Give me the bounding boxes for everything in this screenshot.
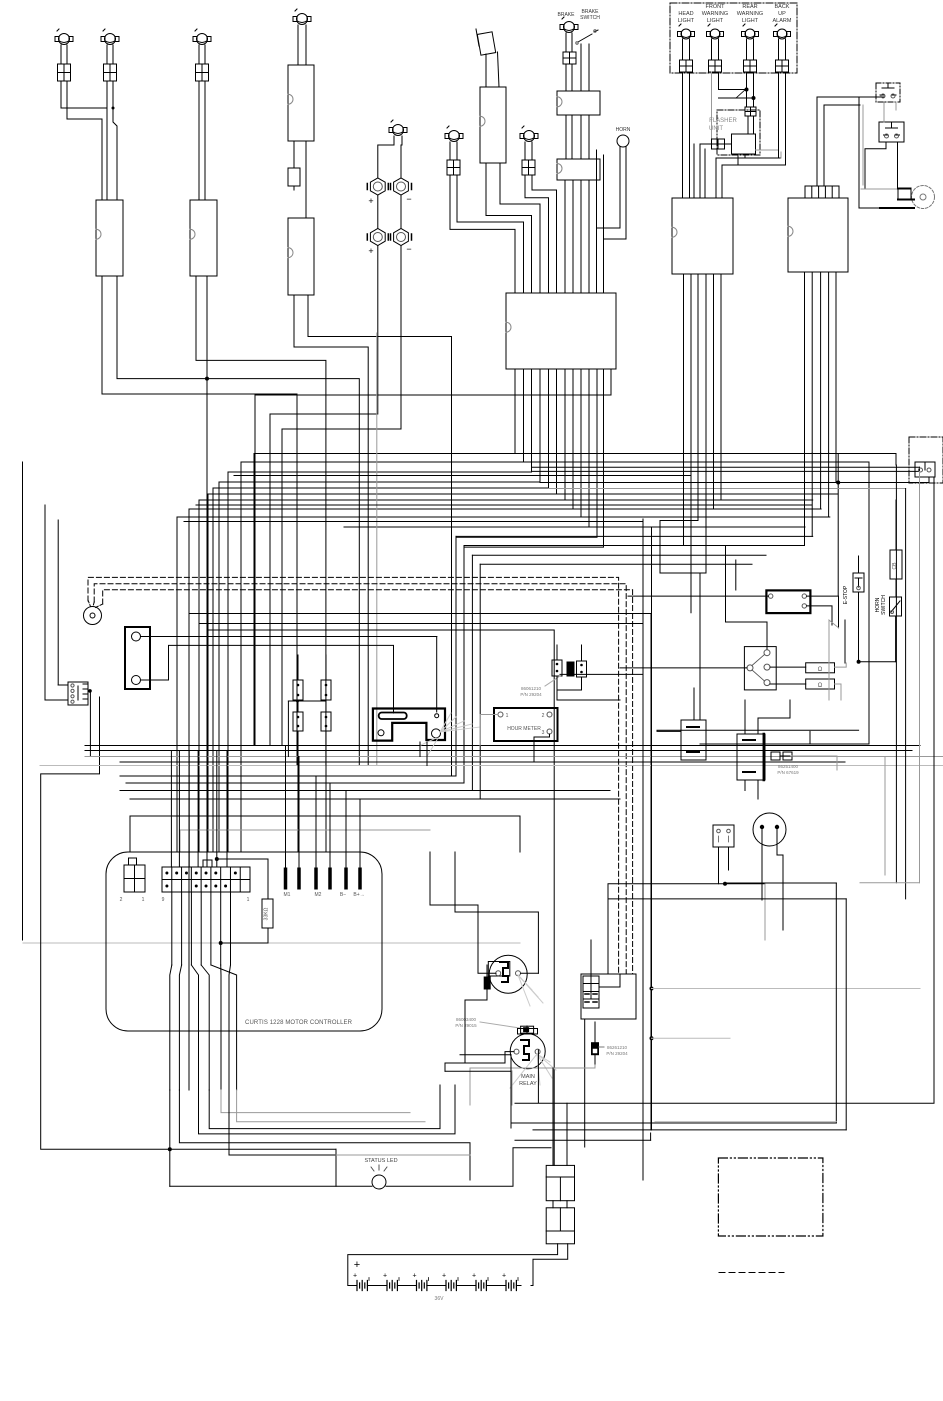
wires CI stubs	[297, 700, 299, 712]
svg-text:E-STOP: E-STOP	[843, 585, 849, 604]
fuse lamp x715	[709, 60, 722, 72]
wire horizontal y790	[120, 790, 610, 792]
svg-text:SWITCH: SWITCH	[580, 15, 600, 21]
svg-text:+: +	[383, 1273, 387, 1280]
wire lamp leads x750	[746, 39, 748, 60]
relay module box	[737, 734, 765, 780]
lamp L1 (left headlight)	[59, 34, 70, 45]
lamp rear warning	[745, 29, 755, 39]
wire 33K loop	[217, 859, 268, 899]
terminal M2 bars	[315, 868, 318, 889]
terminal nut TN4 -	[394, 229, 409, 246]
fuse F1	[58, 64, 71, 81]
fuse F7	[522, 160, 535, 175]
accelerator module outline	[373, 709, 445, 741]
wire far right x934	[515, 477, 934, 1103]
wire bus y488 right	[549, 488, 906, 490]
svg-text:+: +	[368, 196, 373, 206]
wire horizontal y776	[120, 775, 456, 777]
junction box B	[788, 198, 848, 272]
wire dashed speedo 3	[103, 590, 633, 974]
svg-text:1: 1	[142, 897, 145, 903]
wire right column x652	[651, 527, 653, 1130]
svg-text:+: +	[502, 1273, 506, 1280]
wire web upper controller	[130, 815, 520, 817]
fuse lamp x782	[776, 60, 789, 72]
connector stack CS1	[546, 1165, 574, 1200]
svg-text:B−: B−	[340, 892, 346, 898]
wire CN3 mid	[293, 141, 295, 168]
wire estop junction to horn switch	[859, 661, 896, 663]
accelerator pill slot	[379, 713, 407, 720]
svg-text:HEAD: HEAD	[678, 11, 693, 17]
wires box A bottom (6) down to bus	[683, 274, 685, 455]
wire bus y462 right	[524, 461, 870, 463]
relay K1 circle	[489, 955, 527, 993]
svg-text:LIGHT: LIGHT	[742, 18, 759, 24]
wire K1 feeds	[478, 940, 496, 973]
wire right mid x885	[884, 757, 886, 876]
junction dots rear	[745, 88, 749, 92]
wire CN7 down	[89, 691, 91, 757]
wire y520 stub	[660, 520, 698, 522]
wire flasher connections	[747, 116, 749, 134]
wire x660 link	[659, 521, 661, 574]
dashed stub	[719, 1272, 784, 1274]
inline connector pair CI1	[293, 680, 303, 700]
battery string	[357, 1281, 367, 1291]
wire CB up/down	[895, 500, 897, 550]
relay K1 contacts	[500, 962, 508, 982]
wire charger bottom	[141, 645, 394, 713]
resistor 33K	[262, 899, 273, 928]
connector CN1	[96, 200, 123, 276]
gray fan K1	[518, 975, 532, 990]
wire relay module bottom stubs	[744, 780, 746, 791]
wire CB2 connections	[590, 940, 592, 976]
wire horn down to ignition box	[597, 147, 621, 293]
svg-text:B+→: B+→	[353, 892, 364, 898]
wire bus y750	[85, 750, 912, 752]
svg-text:STATUS LED: STATUS LED	[364, 1158, 397, 1164]
svg-text:RELAY: RELAY	[519, 1081, 537, 1087]
connector stack CS2	[546, 1208, 574, 1244]
connector block CB2 grid	[583, 976, 599, 999]
svg-text:ALARM: ALARM	[773, 18, 792, 24]
wire TN3 down-left	[270, 246, 378, 415]
wire bus y555 right	[472, 554, 766, 556]
wire bus y527 right	[589, 526, 805, 528]
wire relay module right	[765, 731, 810, 744]
inline connector CN5	[557, 91, 600, 115]
wire x451 long vertical	[451, 337, 453, 777]
wire bottom long bus	[336, 1154, 470, 1156]
wire bus y745	[85, 745, 920, 747]
gray fan K2	[537, 1054, 550, 1062]
wire bottom lines from pins	[169, 1090, 171, 1186]
svg-text:+: +	[472, 1273, 476, 1280]
wire CN2 down	[196, 276, 326, 766]
fuse flasher top	[745, 107, 756, 116]
svg-text:P/N 29204: P/N 29204	[606, 1051, 628, 1056]
wire rear warn pair down	[746, 72, 748, 107]
wire rear to left stubs	[719, 89, 747, 91]
wire H6 y630	[208, 630, 554, 1165]
connector CN7 small 4-pin	[68, 682, 88, 705]
key switch box	[766, 590, 810, 613]
wire L3 down to connector CN2	[198, 81, 200, 200]
svg-text:−: −	[406, 244, 411, 254]
svg-text:+: +	[354, 1259, 360, 1271]
wire H y395 left	[254, 395, 256, 745]
fuse F2	[104, 64, 117, 81]
wire right tall x896	[895, 465, 897, 883]
wire L6 to ignition box	[450, 175, 515, 293]
lights group dash-dot box	[670, 3, 797, 73]
left frame gray bus y941	[23, 942, 520, 944]
wire bus y453.5 right	[515, 453, 896, 455]
wire bus y536 right	[456, 535, 813, 537]
fuse F8	[563, 52, 576, 64]
speed sensor circle	[84, 607, 102, 625]
wire ladder extra c	[184, 521, 643, 523]
wire relay module top	[744, 700, 746, 734]
wire limiter down	[761, 829, 763, 900]
wire CB1 up	[693, 688, 695, 720]
connector CN4	[480, 87, 506, 163]
wire 86261210 stub	[594, 1022, 596, 1042]
wire mid y674	[560, 673, 643, 675]
svg-text:M2: M2	[315, 892, 322, 898]
svg-text:36V: 36V	[435, 1296, 445, 1302]
connector CJ3	[577, 661, 587, 677]
connector CN3 upper	[288, 65, 314, 141]
status LED	[372, 1175, 386, 1189]
wire L2 down to connector CN1	[106, 81, 108, 200]
wires box A top	[693, 144, 695, 198]
wire pedal down	[718, 847, 720, 884]
wire lamp leads x686	[682, 39, 684, 60]
svg-text:HORN: HORN	[616, 127, 631, 133]
wire bus y564 right	[480, 563, 752, 565]
wire key switch top feed	[735, 560, 737, 590]
svg-text:−: −	[406, 194, 411, 204]
accelerator circles	[435, 714, 439, 718]
svg-text:86003400: 86003400	[456, 1017, 477, 1022]
wire bus y762	[120, 761, 845, 763]
wire CN4 to ignition box	[486, 163, 532, 293]
wire dashed speedo 1	[88, 577, 619, 974]
wire SE nested L1	[726, 882, 837, 884]
connector CJ1	[552, 660, 562, 676]
horn speaker	[912, 186, 935, 209]
lamp brake pressure switch	[564, 22, 575, 33]
wire key switch right	[807, 596, 839, 628]
wire left branch	[57, 520, 59, 685]
wire accel below verticals	[419, 742, 421, 757]
circuit breaker CB	[890, 550, 902, 579]
lamp front warning	[710, 29, 720, 39]
svg-text:P/N 67619: P/N 67619	[777, 770, 799, 775]
receptacle inner	[915, 462, 935, 477]
controller pin strip	[162, 867, 250, 892]
svg-text:P/N 29015: P/N 29015	[455, 1023, 477, 1028]
lamp L7	[524, 131, 535, 142]
svg-text:REAR: REAR	[742, 4, 757, 10]
wire L2 leads	[106, 45, 108, 64]
terminal nut TN1 +	[370, 178, 385, 195]
wire L4 leads	[297, 25, 299, 65]
wire horn switch bottom	[895, 616, 897, 662]
connector CN2	[190, 200, 217, 276]
wire H y429 left vert	[281, 429, 283, 745]
wire turn signal to resistors	[770, 666, 806, 668]
connector CN3 lower	[288, 218, 314, 295]
wire turn signal left	[620, 667, 747, 669]
svg-text:Ω: Ω	[818, 667, 823, 673]
svg-text:33KΩ: 33KΩ	[264, 907, 270, 920]
terminal B- B+ bars	[345, 868, 348, 889]
svg-text:+: +	[412, 1273, 416, 1280]
wire turn signal top	[726, 546, 768, 650]
wire L1 leads	[60, 45, 62, 64]
wire bus y756	[85, 756, 943, 758]
connector block CB1	[681, 720, 706, 760]
charger receptacle	[125, 627, 150, 689]
wire front warn left down to flasher fuse region	[711, 72, 713, 139]
switch S1 dash-dot (interlock)	[876, 83, 900, 102]
inline connector pair CI2	[321, 680, 331, 700]
wire extra pair to ignition box	[596, 150, 598, 228]
svg-text:WARNING: WARNING	[702, 11, 728, 17]
wire horizontal y799	[130, 798, 620, 800]
wire relay bottom bus	[460, 1054, 511, 1056]
leader 86061210	[545, 676, 560, 686]
wire bus y482 right	[540, 482, 929, 484]
svg-text:9: 9	[162, 897, 165, 903]
fuse flasher left	[712, 139, 725, 149]
wire L3 leads	[198, 45, 200, 64]
wire e-stop top stub	[858, 556, 860, 573]
accelerator gray fan	[440, 713, 451, 732]
wire charger top to right	[141, 636, 188, 638]
Curtis 1228 controller outline	[106, 852, 382, 1031]
wire CB1 sides	[657, 730, 859, 731]
svg-text:FLASHER: FLASHER	[709, 118, 737, 124]
left frame wire outer	[22, 462, 24, 940]
wire backup pair to box L	[778, 150, 780, 158]
svg-text:CURTIS 1228 MOTOR CONTROLLE: CURTIS 1228 MOTOR CONTROLLER	[245, 1020, 353, 1026]
pedal connector	[713, 825, 734, 847]
wire speaker feeds	[859, 97, 911, 208]
svg-text:WARNING: WARNING	[737, 11, 763, 17]
wire L6 leads	[449, 142, 451, 160]
receptacle dash-dot box	[909, 437, 943, 483]
lamp L4	[297, 14, 308, 25]
wire CI link y701	[288, 700, 326, 702]
main relay K2 circle	[510, 1034, 545, 1069]
wire bus y471.4 right	[532, 470, 920, 472]
alarm back up	[777, 29, 787, 39]
fuse 86251400	[771, 752, 780, 760]
svg-text:2: 2	[542, 713, 545, 719]
wire receptacle stubs	[919, 467, 921, 477]
wire pedal bus	[608, 884, 725, 920]
left frame wire 2	[44, 505, 46, 700]
svg-text:86261210: 86261210	[607, 1045, 628, 1050]
flasher unit body	[732, 134, 756, 154]
fuse lamp x686	[680, 60, 693, 72]
ignition key-switch box	[506, 293, 616, 369]
hour meter box	[494, 708, 558, 741]
wire hour meter 1	[480, 715, 498, 746]
wire SE y1140	[515, 1139, 651, 1141]
flasher dash-dot box	[717, 110, 760, 155]
wire L7 leads	[524, 142, 526, 160]
fuse F6	[447, 160, 460, 175]
terminal nut TN3 +	[370, 229, 385, 246]
wire CS feeds	[552, 1068, 554, 1165]
wire CN3 down	[294, 295, 368, 766]
wire backup pair down	[778, 72, 780, 158]
wire right column x643	[642, 519, 644, 1180]
hour meter terminals	[498, 712, 503, 717]
wires box B bottom (5) down	[804, 272, 806, 453]
wire pins down	[171, 892, 173, 965]
comb terminals box B	[805, 186, 839, 198]
wire x700 long down	[699, 573, 701, 720]
wire H y413 left vert	[269, 414, 271, 745]
wire H6 y623	[199, 624, 643, 1181]
fuse clip FC1	[288, 168, 300, 186]
wire gray mid vertical	[376, 333, 378, 766]
svg-text:UP: UP	[778, 11, 786, 17]
wire estop feed	[844, 620, 846, 663]
pin strip pin dots	[165, 872, 168, 875]
controller 4-pin connector	[124, 865, 145, 892]
svg-text:P/N 29204: P/N 29204	[520, 692, 542, 697]
wire strip feeds top	[170, 751, 172, 867]
wire S2 connections	[895, 102, 897, 110]
wire hour meter 3	[534, 734, 550, 762]
wire status led bus	[170, 1148, 336, 1150]
wire brake leads	[565, 33, 567, 52]
wire left verticals long	[188, 509, 190, 1090]
wire lamp leads x782	[778, 39, 780, 60]
junction box A	[672, 198, 733, 274]
svg-text:MAIN: MAIN	[521, 1074, 535, 1080]
inline connector pair CI4	[321, 712, 331, 731]
wire battery links	[372, 1285, 382, 1287]
wire box B verticals continue	[804, 453, 806, 546]
wire nuts mid	[377, 195, 379, 228]
wire SE gray y1121	[655, 1121, 836, 1123]
wire L7 to ignition box	[525, 175, 549, 293]
wire L5 to nuts	[378, 136, 394, 178]
wire bus y500 right	[565, 499, 813, 501]
svg-text:1: 1	[506, 713, 509, 719]
wire M-terminal feeds	[285, 746, 287, 869]
wires CJ stubs	[556, 645, 558, 660]
wire bus y467 right	[532, 466, 920, 468]
terminal nut TN2 -	[394, 178, 409, 195]
wire bus y545 right	[464, 545, 805, 547]
svg-text:CB: CB	[892, 562, 898, 570]
wire dashed speedo 2	[94, 584, 626, 974]
lamp L3	[197, 34, 208, 45]
brake switch lever	[578, 30, 598, 42]
svg-text:HOUR METER: HOUR METER	[507, 726, 541, 732]
resistor R-turn2	[806, 679, 835, 689]
polygon wire bend	[829, 620, 839, 700]
wire bus y509 right	[573, 508, 821, 510]
svg-text:3: 3	[542, 730, 545, 736]
wire right tall x919	[919, 471, 921, 882]
switch S2 (horn button)	[879, 122, 904, 142]
wire K2 feeds	[505, 1052, 514, 1063]
wire estop down to dot	[858, 592, 860, 663]
wire CS to battery	[348, 1244, 558, 1286]
wire box A verticals continue	[683, 455, 685, 546]
lamp L5	[393, 125, 404, 136]
wire SE nested L2	[608, 898, 846, 900]
wires ignition box bottom fan	[254, 369, 515, 454]
resistor R-turn1	[806, 663, 835, 673]
wire ladder extra b	[196, 504, 812, 506]
svg-text:SWITCH: SWITCH	[881, 595, 887, 615]
component 86003400	[521, 1026, 534, 1033]
wire head light pair down	[682, 72, 684, 198]
svg-text:86061210: 86061210	[521, 686, 542, 691]
svg-text:FRONT: FRONT	[706, 4, 726, 10]
svg-text:+: +	[353, 1273, 357, 1280]
svg-text:Ω: Ω	[818, 683, 823, 689]
svg-text:86251400: 86251400	[778, 764, 799, 769]
fuse lamp x750	[744, 60, 757, 72]
wire TN4 down-left	[282, 246, 401, 430]
speed limiter circle	[753, 813, 786, 846]
svg-text:BRAKE: BRAKE	[558, 12, 576, 18]
wire flasher outputs to backup column	[756, 149, 779, 151]
wire H6 y636 (to accel)	[213, 636, 437, 638]
wire horizontal y783	[126, 782, 464, 784]
inline connector pair CI3	[293, 712, 303, 731]
fuse F3	[196, 64, 209, 81]
wire plug to CN4	[485, 54, 487, 87]
svg-text:1: 1	[247, 897, 250, 903]
horn terminal circle	[617, 135, 629, 147]
wire right tall x905	[905, 489, 907, 899]
wire bus y494 right	[557, 493, 839, 495]
connector plug tilted	[477, 32, 495, 55]
svg-text:BACK: BACK	[775, 4, 790, 10]
wire bus y765 gray	[40, 765, 943, 767]
svg-text:LIGHT: LIGHT	[707, 18, 724, 24]
wire H6 y613	[189, 614, 651, 1131]
wire pins jog and descend	[170, 965, 172, 1090]
wire brake bundle to ignition box	[564, 180, 566, 293]
wire comb up to switches	[817, 97, 884, 186]
wire lamp leads x715	[711, 39, 713, 60]
wire bus y517 right	[581, 516, 830, 518]
svg-text:2: 2	[120, 897, 123, 903]
relay K1 aux component	[484, 977, 490, 989]
svg-text:+: +	[442, 1273, 446, 1280]
wire brake bundle down	[565, 64, 567, 91]
connector block CB2 outline	[581, 974, 636, 1019]
lamp L2	[105, 34, 116, 45]
svg-text:UNIT: UNIT	[709, 126, 723, 132]
